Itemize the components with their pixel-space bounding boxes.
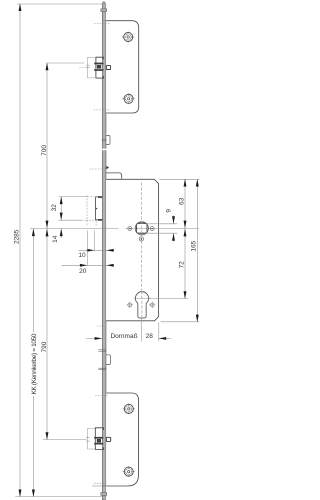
faceplate joint line (y=140) (102, 139, 106, 141)
dashed mark y=326 (97, 325, 106, 327)
dashed mark y=23.4 (94, 22, 110, 24)
top rod collar (101, 9, 107, 12)
top aux lock body (106, 21, 139, 113)
follower screw right (150, 227, 154, 231)
bottom rod (102, 486, 105, 500)
bottom latch dark bracket (95, 428, 103, 450)
dimension 14 lower arrow (60, 229, 62, 239)
dimension 32 line (60, 197, 62, 221)
dimension Dornmass arrow left (86, 337, 102, 339)
main case top bump (106, 173, 122, 179)
faceplate joint pair (y=350) (98, 349, 106, 351)
bottom latch outer bracket (88, 428, 95, 449)
follower centerline long (y=228.5) (30, 228, 119, 230)
faceplate clip 2 (y 354-365) (106, 355, 110, 365)
top rod (102, 1, 105, 20)
svg-text:63: 63 (178, 197, 185, 205)
extension line 32 bottom (y=220.2) (59, 219, 81, 221)
dimension 9 (147, 223, 178, 225)
extension line cylinder axis right (y=298.5) (149, 298, 189, 300)
dimension 63/72 line (184, 179, 186, 298)
main case centerline vertical (141, 183, 143, 218)
top latch centerline dash (79, 66, 86, 68)
extension line top latch (y=63) (47, 62, 84, 64)
svg-text:165: 165 (191, 240, 198, 251)
top latch slider block (94, 63, 103, 65)
svg-text:2285: 2285 (14, 229, 21, 244)
dimension 10 (93, 231, 95, 252)
bottom aux roller 1 (123, 404, 135, 415)
extension line bottom latch (y=439.5) (43, 439, 87, 441)
cylinder screw right (149, 302, 155, 308)
svg-text:700: 700 (41, 145, 48, 156)
svg-text:9: 9 (165, 209, 172, 213)
bottom latch tabs (86, 436, 89, 438)
faceplate joint pair (y=369) (98, 367, 106, 369)
dimension 700/790 line (46, 63, 48, 440)
extension line bottom aux bottom edge left (y=486) (92, 485, 102, 487)
dimension 2285 line (19, 4, 21, 497)
cylinder centerline vertical (141, 291, 143, 318)
svg-text:72: 72 (178, 261, 185, 269)
extension line top (y=4) (17, 3, 106, 5)
svg-text:14: 14 (52, 235, 59, 243)
dashed mark y=483.2 (94, 482, 106, 484)
bottom aux roller 2 (123, 466, 135, 477)
svg-text:28: 28 (146, 333, 154, 340)
dashed mark y=109.9 (94, 109, 110, 111)
dimension 28 arrow right (159, 337, 171, 339)
follower (135, 222, 148, 235)
bottom aux lock body (106, 393, 138, 486)
svg-text:KK (Kennkerbe) = 1050: KK (Kennkerbe) = 1050 (31, 333, 38, 394)
follower screw bottom (139, 237, 143, 241)
extension line bottom (y=496.5) (15, 496, 106, 498)
faceplate break (y=149) (101, 149, 106, 151)
faceplate clip 1 (y 135-144.5) (106, 135, 110, 144)
extension line case bottom right (y=321.8) (161, 321, 200, 323)
bottom latch slider block (94, 437, 103, 439)
cylinder axis extension below (x=141.5) (141, 317, 143, 342)
cylinder screw left (127, 302, 133, 308)
dimension 20 (86, 231, 88, 266)
top latch tabs (86, 64, 89, 66)
bracket notch (96, 207, 98, 209)
top aux roller 1 (122, 32, 134, 43)
svg-text:32: 32 (51, 204, 58, 212)
top latch bolt (106, 65, 110, 69)
dashed mark y=169 (90, 168, 107, 170)
dimension 165 line (196, 179, 198, 321)
extension line case top right (y=179.3) (160, 178, 200, 180)
dimension KK 1050 line (32, 229, 34, 333)
svg-text:790: 790 (41, 341, 48, 352)
cylinder hole (135, 292, 148, 318)
dornmass extension case edge (x=158.8) (158, 322, 160, 341)
cylinder centerline horizontal (134, 297, 151, 299)
faceplate (102, 21, 106, 486)
svg-text:20: 20 (79, 268, 87, 275)
main case left bracket (96, 197, 103, 220)
svg-text:Dornmaß: Dornmaß (110, 333, 137, 340)
follower screw left (128, 227, 132, 231)
main lock case (106, 179, 159, 320)
dashed mark y=395.4 (95, 394, 108, 396)
bottom latch bolt (106, 437, 110, 441)
dashed bolt-extended verticals (86, 196, 88, 226)
latch pointer main case (106, 166, 109, 170)
bottom rod collar (101, 493, 107, 496)
top aux roller 2 (123, 94, 135, 105)
top latch dark bracket (96, 57, 104, 78)
top latch outer bracket (88, 57, 95, 78)
extension line 32 top (y=196.5) (59, 196, 88, 198)
svg-text:10: 10 (78, 252, 86, 259)
